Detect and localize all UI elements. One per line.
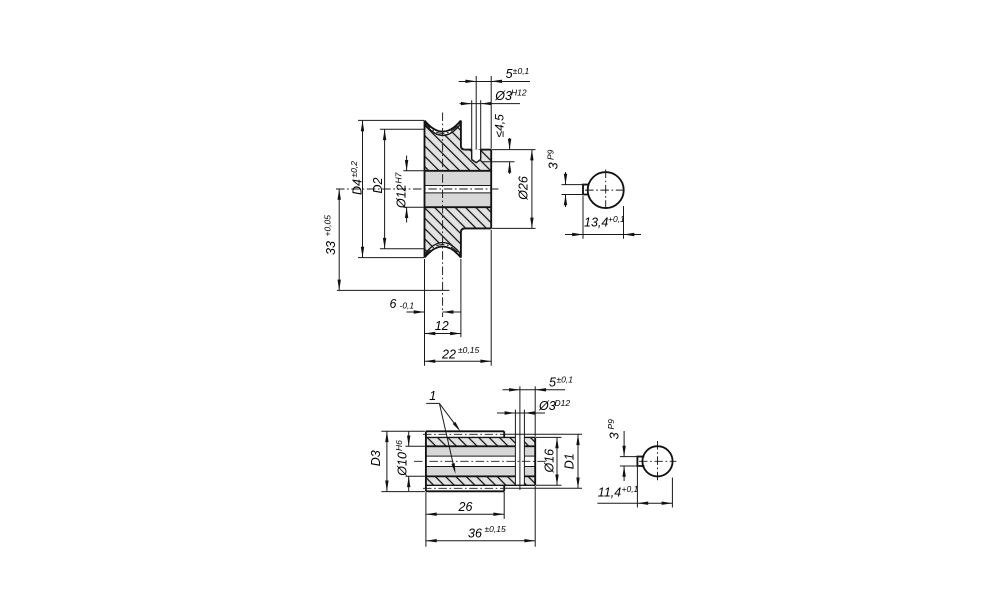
- worm pin hole centerline: [519, 386, 521, 490]
- svg-text:22: 22: [441, 347, 456, 361]
- dimension D3 (worm outer diameter): [369, 431, 425, 491]
- svg-text:36: 36: [468, 526, 482, 540]
- worm thread end step top: [503, 431, 505, 437]
- wheel hub bottom surface: [465, 227, 491, 229]
- worm axis centerline: [414, 460, 546, 462]
- dimension 36 +-0.15 (overall length): [426, 486, 535, 547]
- wheel end view centerlines: [605, 170, 607, 211]
- dimension 33 +0.05 (centre height): [323, 189, 450, 290]
- svg-text:Ø26: Ø26: [517, 176, 531, 201]
- dimension D3 H12 (wheel pin hole): [460, 88, 527, 150]
- worm left face: [425, 431, 427, 491]
- worm hatched band upper: [426, 437, 535, 446]
- wheel throat outer arc bottom: [425, 247, 461, 258]
- wheel bore band inner thin edges: [425, 185, 492, 187]
- svg-text:H12: H12: [511, 88, 527, 98]
- dimension 5 +-0.1 (worm pin hole position): [503, 374, 574, 436]
- worm root / collar top line (gap at pin hole): [426, 436, 516, 438]
- wheel keyway slot: [583, 185, 589, 195]
- wheel bore top line: [425, 170, 492, 172]
- svg-text:H6: H6: [394, 440, 404, 451]
- worm keyway slot: [637, 457, 644, 466]
- svg-text:5: 5: [506, 67, 513, 81]
- worm thread OD bottom line: [426, 490, 504, 492]
- svg-text:±0,15: ±0,15: [458, 345, 479, 355]
- wheel hub pin hole walls inside hub: [471, 150, 473, 160]
- worm wheel sectioned body (hatched rim and hub): [425, 124, 492, 255]
- dimension 13,4 +0.1 (keyway depth, wheel): [565, 196, 641, 239]
- wheel bore shading band upper: [425, 171, 492, 185]
- svg-text:±0,15: ±0,15: [485, 524, 506, 534]
- wheel throat inner arc top: [425, 124, 461, 136]
- worm bore top line: [426, 445, 516, 447]
- svg-text:+0,1: +0,1: [622, 484, 639, 494]
- worm bore circle: [642, 446, 672, 476]
- dimension &le;4,5 (hole depth): [482, 114, 536, 174]
- svg-text:±0,2: ±0,2: [349, 161, 359, 178]
- dimension D12 H7 (bore): [393, 156, 424, 223]
- svg-text:Ø16: Ø16: [543, 449, 557, 474]
- dimension 11,4 +0.1 (keyway depth, worm): [597, 467, 672, 508]
- worm bore band inner thin edges: [426, 455, 516, 457]
- svg-text:3: 3: [547, 162, 561, 169]
- wheel throat outer arc top: [425, 121, 461, 132]
- svg-text:Ø3: Ø3: [494, 89, 512, 103]
- svg-text:D3: D3: [369, 450, 383, 466]
- wheel rim left face: [424, 121, 426, 258]
- dimension D26 (hub diameter): [492, 150, 536, 229]
- item callout 1 with leaders: [426, 389, 462, 474]
- svg-text:13,4: 13,4: [584, 216, 608, 230]
- wheel bore bottom line: [425, 206, 492, 208]
- wheel rim right face lower: [461, 228, 465, 257]
- dimension D3 D12 (worm pin hole): [497, 398, 570, 415]
- svg-text:D1: D1: [563, 453, 577, 469]
- svg-text:Ø10: Ø10: [395, 452, 409, 477]
- svg-text:6: 6: [390, 297, 397, 311]
- svg-text:12: 12: [435, 319, 449, 333]
- wheel vertical centerline: [442, 113, 444, 318]
- worm thread OD top line: [426, 430, 504, 432]
- wheel pitch arc bottom (dash-dot): [425, 245, 461, 257]
- wheel bore circle: [588, 172, 624, 208]
- svg-text:Ø12: Ø12: [395, 184, 409, 209]
- dimension D2 (pitch diameter): [371, 129, 424, 248]
- dimension 26 (thread length): [426, 492, 504, 519]
- dimension 3 P9 (keyway width, worm): [606, 419, 641, 481]
- svg-text:D4: D4: [351, 179, 365, 195]
- wheel throat inner arc bottom: [425, 243, 461, 255]
- worm right face: [534, 437, 536, 485]
- wheel hub right face: [490, 150, 492, 229]
- worm bore shading band upper: [426, 448, 535, 457]
- dimension 6 -0.1: [390, 259, 461, 366]
- svg-text:Ø3: Ø3: [538, 399, 556, 413]
- worm root / collar bottom line: [426, 484, 535, 486]
- svg-text:+0,1: +0,1: [608, 214, 625, 224]
- dimension 12 (rim width): [425, 259, 461, 337]
- svg-text:P9: P9: [606, 419, 616, 430]
- svg-text:≤4,5: ≤4,5: [493, 114, 507, 138]
- worm pitch line bottom (dash-dot): [423, 487, 504, 489]
- wheel pitch arc top (dash-dot): [425, 122, 461, 134]
- worm pin hole walls: [514, 410, 516, 486]
- svg-text:1: 1: [429, 389, 436, 403]
- wheel rim right face upper: [461, 121, 465, 150]
- svg-text:±0,1: ±0,1: [557, 374, 574, 384]
- svg-text:-0,1: -0,1: [400, 301, 415, 311]
- svg-text:33: 33: [324, 241, 338, 255]
- svg-text:±0,1: ±0,1: [513, 66, 530, 76]
- dimension 22 +-0.15 (overall width): [425, 230, 492, 366]
- dimension 5 +-0.1 (wheel pin hole position): [459, 66, 530, 150]
- dimension 3 P9 (keyway width, wheel): [545, 149, 584, 207]
- dimension D1 (worm pitch diameter): [504, 434, 582, 488]
- wheel hub top surface (gap at pin hole): [465, 149, 472, 151]
- worm bore shading band lower: [426, 467, 535, 476]
- svg-text:D12: D12: [555, 398, 571, 408]
- svg-text:H7: H7: [393, 172, 403, 183]
- worm hatched band lower: [426, 476, 535, 485]
- svg-text:+0,05: +0,05: [323, 215, 333, 237]
- svg-text:11,4: 11,4: [598, 486, 621, 500]
- dimension D4 +-0.2 (outer diameter): [349, 120, 424, 257]
- wheel bore shading band lower: [425, 193, 492, 207]
- svg-text:5: 5: [549, 376, 556, 390]
- dimension D16 (collar diameter): [536, 437, 562, 485]
- worm pin hole white channel: [516, 437, 524, 485]
- worm thread end step bottom: [503, 485, 505, 491]
- dimension D10 H6 (worm bore): [394, 432, 425, 492]
- wheel hub pin hole drill point: [472, 160, 481, 163]
- svg-text:D2: D2: [371, 177, 385, 193]
- svg-text:26: 26: [458, 500, 473, 514]
- svg-text:P9: P9: [545, 149, 555, 160]
- wheel horizontal centerline: [336, 188, 500, 190]
- worm end view centerlines: [657, 441, 659, 482]
- worm pitch line top (dash-dot): [423, 433, 504, 435]
- worm bore bottom line: [426, 475, 516, 477]
- svg-text:3: 3: [608, 432, 622, 439]
